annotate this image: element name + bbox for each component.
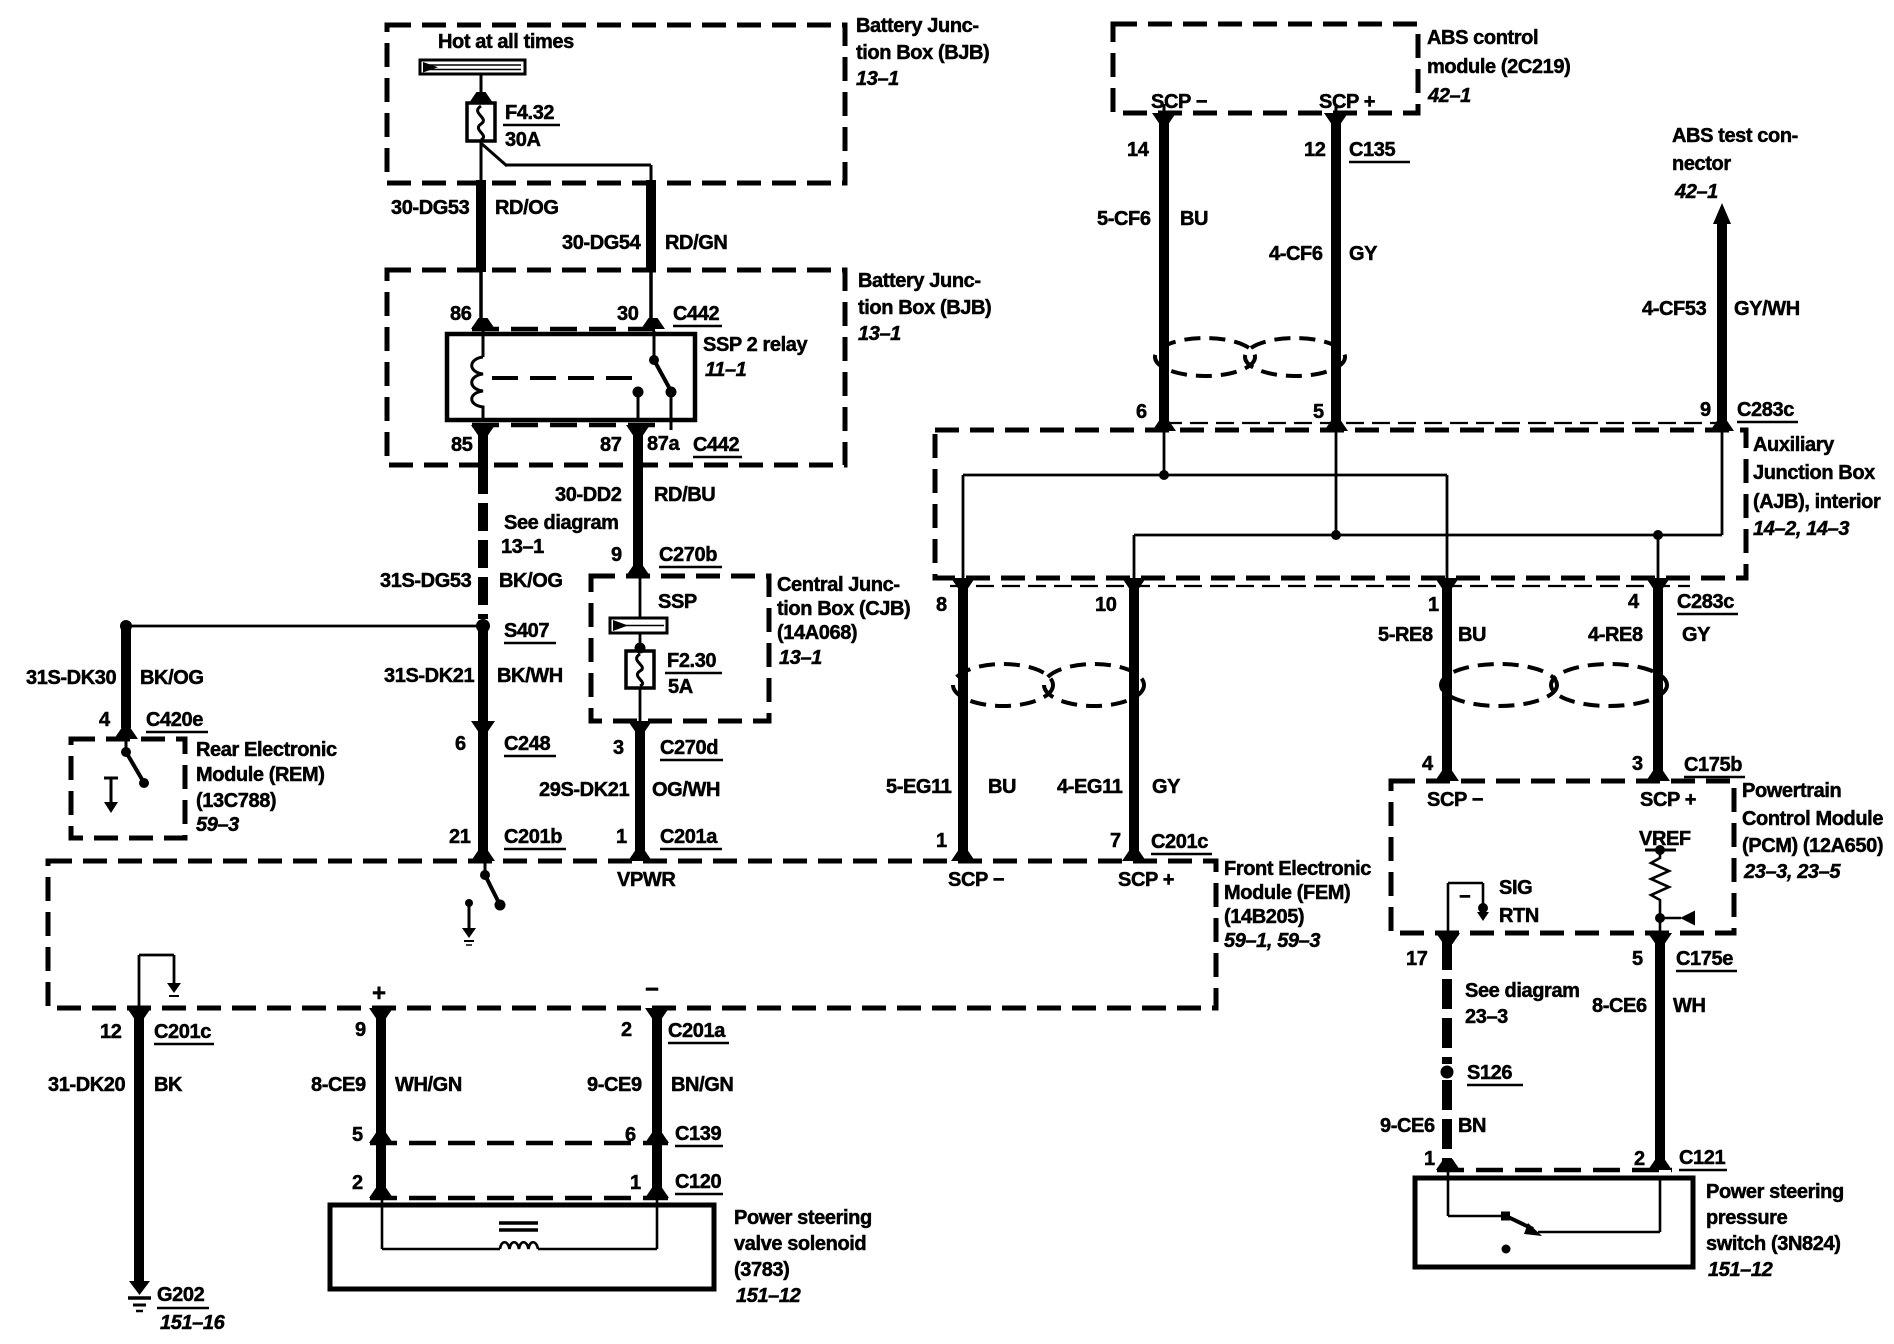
svg-text:C201a: C201a	[668, 1020, 726, 1042]
rear electronic module REM box	[71, 739, 185, 838]
wire bus bar to fuse	[480, 74, 483, 103]
svg-text:1: 1	[936, 830, 947, 852]
svg-text:SCP +: SCP +	[1118, 869, 1174, 891]
powertrain control module PCM box	[1391, 781, 1734, 933]
svg-text:WH: WH	[1673, 995, 1706, 1017]
svg-text:31-DK20: 31-DK20	[48, 1074, 126, 1096]
svg-text:VPWR: VPWR	[617, 869, 676, 891]
power steering valve solenoid box	[330, 1205, 714, 1289]
svg-text:42–1: 42–1	[1427, 85, 1471, 107]
svg-text:9: 9	[1700, 399, 1711, 421]
svg-text:switch (3N824): switch (3N824)	[1706, 1233, 1840, 1255]
battery junction box BJB (second)	[387, 270, 845, 465]
wire 30-DG54 RD/GN	[646, 180, 656, 272]
svg-text:Power steering: Power steering	[1706, 1181, 1844, 1203]
ground G202	[129, 1281, 150, 1295]
svg-text:Front Electronic: Front Electronic	[1224, 858, 1371, 880]
svg-text:8: 8	[936, 594, 947, 616]
svg-text:30-DD2: 30-DD2	[555, 484, 622, 506]
svg-text:29S-DK21: 29S-DK21	[539, 779, 629, 801]
svg-text:85: 85	[451, 434, 473, 456]
svg-text:Battery Junc-: Battery Junc-	[858, 270, 981, 292]
svg-text:C201b: C201b	[504, 826, 562, 848]
svg-text:SCP −: SCP −	[948, 869, 1004, 891]
SSP 2 relay	[447, 334, 695, 420]
wire 9-CE6 BN thick dashed with S126	[1442, 940, 1452, 1064]
solenoid internals	[381, 1198, 384, 1249]
svg-text:151–16: 151–16	[160, 1312, 226, 1334]
relay pin 87a stub	[670, 392, 673, 430]
svg-text:151–12: 151–12	[736, 1285, 801, 1307]
svg-text:5: 5	[1313, 401, 1324, 423]
wire pin 30	[649, 270, 653, 329]
svg-text:31S-DK30: 31S-DK30	[26, 667, 116, 689]
svg-text:(14B205): (14B205)	[1224, 906, 1304, 928]
svg-text:Central Junc-: Central Junc-	[777, 574, 900, 596]
battery junction box BJB (top)	[387, 25, 845, 183]
wire 31S-DG53 BK/OG thick dashed	[478, 466, 488, 619]
svg-text:C283c: C283c	[1737, 399, 1794, 421]
svg-text:ABS control: ABS control	[1427, 27, 1538, 49]
svg-text:BU: BU	[1458, 624, 1486, 646]
svg-text:5: 5	[352, 1124, 363, 1146]
svg-text:S407: S407	[504, 620, 549, 642]
svg-text:tion Box (BJB): tion Box (BJB)	[858, 297, 991, 319]
svg-text:2: 2	[352, 1172, 363, 1194]
svg-text:30A: 30A	[505, 129, 541, 151]
svg-text:6: 6	[1136, 401, 1147, 423]
svg-text:See diagram: See diagram	[504, 512, 619, 534]
wire 5-RE8 BU	[1442, 587, 1452, 775]
svg-text:tion Box (BJB): tion Box (BJB)	[856, 42, 989, 64]
svg-text:5A: 5A	[668, 676, 693, 698]
power steering pressure switch box	[1415, 1178, 1693, 1267]
connector C201c pin 12	[127, 1008, 151, 1019]
svg-text:Module (FEM): Module (FEM)	[1224, 882, 1350, 904]
svg-text:59–3: 59–3	[196, 814, 239, 836]
svg-text:C442: C442	[673, 303, 719, 325]
svg-text:C420e: C420e	[146, 709, 203, 731]
svg-text:C121: C121	[1679, 1147, 1725, 1169]
svg-text:pressure: pressure	[1706, 1207, 1788, 1229]
svg-text:87a: 87a	[647, 433, 680, 455]
svg-text:C442: C442	[693, 434, 739, 456]
wire 31-DK20 BK	[134, 1015, 144, 1281]
svg-text:GY/WH: GY/WH	[1734, 298, 1800, 320]
svg-text:4-CF53: 4-CF53	[1642, 298, 1707, 320]
svg-text:23–3, 23–5: 23–3, 23–5	[1743, 861, 1841, 883]
svg-text:5-RE8: 5-RE8	[1378, 624, 1433, 646]
splice S407	[476, 619, 490, 633]
wire S407 to REM branch	[126, 625, 480, 628]
wire 29S-DK21 OG/WH	[635, 727, 645, 852]
svg-text:14–2, 14–3: 14–2, 14–3	[1753, 518, 1849, 540]
svg-text:21: 21	[449, 826, 471, 848]
relay armature dashed link	[492, 376, 644, 380]
svg-text:C270d: C270d	[660, 737, 718, 759]
wire 31S-DK21 BK/WH	[478, 630, 488, 722]
wire 4-RE8 GY	[1653, 587, 1663, 775]
svg-text:(13C788): (13C788)	[196, 790, 276, 812]
svg-text:nector: nector	[1672, 153, 1731, 175]
solenoid core	[499, 1221, 538, 1225]
wire 4-CF53 GY/WH with up arrow	[1713, 203, 1731, 224]
svg-text:Powertrain: Powertrain	[1742, 780, 1841, 802]
wire 30-DG53 RD/OG	[476, 180, 486, 272]
wire 9-CE9 BN/GN	[652, 1015, 662, 1139]
svg-text:Rear Electronic: Rear Electronic	[196, 739, 337, 761]
svg-text:86: 86	[450, 303, 472, 325]
svg-text:12: 12	[1304, 139, 1326, 161]
svg-text:13–1: 13–1	[858, 323, 901, 345]
svg-text:5: 5	[1632, 948, 1643, 970]
svg-text:14: 14	[1127, 139, 1150, 161]
svg-text:BK/OG: BK/OG	[140, 667, 204, 689]
svg-text:ABS test con-: ABS test con-	[1672, 125, 1798, 147]
svg-text:BK/WH: BK/WH	[497, 665, 563, 687]
svg-text:1: 1	[1428, 594, 1439, 616]
svg-text:(AJB), interior: (AJB), interior	[1753, 491, 1881, 513]
svg-text:SCP −: SCP −	[1427, 789, 1483, 811]
svg-text:8-CE6: 8-CE6	[1592, 995, 1647, 1017]
svg-text:RTN: RTN	[1499, 905, 1539, 927]
svg-text:1: 1	[1424, 1148, 1435, 1170]
wire 8-CE6 WH	[1655, 940, 1665, 1166]
svg-text:SSP: SSP	[658, 591, 697, 613]
svg-text:2: 2	[1634, 1148, 1645, 1170]
AJB SCP minus bus	[1163, 430, 1166, 475]
svg-text:BN/GN: BN/GN	[671, 1074, 733, 1096]
svg-text:4: 4	[99, 709, 111, 731]
AJB SCP plus bus	[1335, 430, 1338, 535]
svg-text:C175b: C175b	[1684, 754, 1742, 776]
in-line connector C248	[471, 721, 495, 732]
svg-text:SSP 2 relay: SSP 2 relay	[703, 334, 808, 356]
svg-text:5-CF6: 5-CF6	[1097, 208, 1151, 230]
svg-text:3: 3	[1632, 753, 1643, 775]
svg-text:valve solenoid: valve solenoid	[734, 1233, 866, 1255]
svg-text:C139: C139	[675, 1123, 721, 1145]
relay switch pivot and blade	[653, 331, 656, 359]
wire 5-CF6 BU	[1159, 120, 1169, 424]
connector pins 9 and 2 C201a	[369, 1008, 393, 1019]
svg-text:31S-DG53: 31S-DG53	[380, 570, 472, 592]
svg-text:C201c: C201c	[1151, 831, 1208, 853]
svg-text:4-RE8: 4-RE8	[1588, 624, 1643, 646]
svg-text:RD/BU: RD/BU	[654, 484, 715, 506]
svg-text:4-EG11: 4-EG11	[1057, 776, 1123, 798]
svg-text:2: 2	[621, 1019, 632, 1041]
svg-text:−: −	[645, 976, 659, 1003]
fuse F4.32 30A	[467, 103, 495, 141]
svg-text:RD/OG: RD/OG	[495, 197, 559, 219]
svg-text:(14A068): (14A068)	[777, 622, 857, 644]
svg-text:Junction Box: Junction Box	[1753, 462, 1875, 484]
svg-text:4: 4	[1628, 591, 1640, 613]
REM ground contact	[104, 777, 118, 780]
svg-text:Hot at all times: Hot at all times	[438, 31, 574, 53]
wire fuse diagonal branch	[482, 144, 507, 166]
svg-text:Module (REM): Module (REM)	[196, 764, 325, 786]
svg-text:30-DG54: 30-DG54	[562, 232, 642, 254]
svg-text:5-EG11: 5-EG11	[886, 776, 952, 798]
svg-text:GY: GY	[1682, 624, 1711, 646]
svg-text:−: −	[1459, 886, 1470, 908]
svg-text:Power steering: Power steering	[734, 1207, 872, 1229]
svg-text:30: 30	[617, 303, 639, 325]
svg-text:1: 1	[630, 1172, 641, 1194]
twisted pair EG11	[953, 664, 1053, 706]
connector C283c bottom row labels	[951, 578, 975, 589]
svg-text:4-CF6: 4-CF6	[1269, 243, 1323, 265]
svg-text:BU: BU	[1180, 208, 1208, 230]
svg-text:30-DG53: 30-DG53	[391, 197, 470, 219]
svg-text:C248: C248	[504, 733, 550, 755]
svg-text:RD/GN: RD/GN	[665, 232, 727, 254]
twisted pair RE8	[1441, 664, 1557, 706]
svg-text:23–3: 23–3	[1465, 1006, 1508, 1028]
relay coil	[482, 331, 485, 357]
svg-text:See diagram: See diagram	[1465, 980, 1580, 1002]
svg-text:C201a: C201a	[660, 826, 718, 848]
svg-text:BU: BU	[988, 776, 1016, 798]
connector row C442 bottom	[472, 423, 663, 428]
front electronic module FEM box	[48, 861, 1216, 1008]
svg-text:OG/WH: OG/WH	[652, 779, 720, 801]
svg-text:13–1: 13–1	[779, 647, 822, 669]
ABS control module box	[1113, 24, 1418, 113]
svg-text:module (2C219): module (2C219)	[1427, 56, 1570, 78]
svg-text:13–1: 13–1	[501, 536, 544, 558]
svg-text:C201c: C201c	[154, 1021, 211, 1043]
svg-text:+: +	[372, 980, 386, 1007]
FEM internal ground loop at pin 12	[138, 955, 141, 1008]
svg-text:42–1: 42–1	[1674, 181, 1718, 203]
svg-text:VREF: VREF	[1639, 828, 1691, 850]
svg-text:(3783): (3783)	[734, 1259, 789, 1281]
svg-text:151–12: 151–12	[1708, 1259, 1773, 1281]
svg-text:GY: GY	[1152, 776, 1181, 798]
svg-text:9: 9	[355, 1019, 366, 1041]
svg-text:8-CE9: 8-CE9	[311, 1074, 366, 1096]
svg-text:9-CE9: 9-CE9	[587, 1074, 642, 1096]
central junction box CJB	[591, 576, 769, 721]
connector C270d	[628, 721, 652, 732]
svg-text:6: 6	[455, 733, 466, 755]
svg-text:SCP −: SCP −	[1151, 91, 1207, 113]
svg-text:tion Box (CJB): tion Box (CJB)	[777, 598, 910, 620]
svg-text:17: 17	[1406, 948, 1428, 970]
svg-text:(PCM) (12A650): (PCM) (12A650)	[1742, 835, 1883, 857]
svg-text:BK/OG: BK/OG	[499, 570, 563, 592]
svg-text:C175e: C175e	[1676, 948, 1733, 970]
svg-text:87: 87	[600, 434, 622, 456]
svg-text:F4.32: F4.32	[505, 102, 554, 124]
svg-text:59–1, 59–3: 59–1, 59–3	[1224, 930, 1320, 952]
wire pin 86	[479, 270, 483, 329]
FEM switch below pin 21	[484, 861, 487, 873]
wire pin 87 down 30-DD2 RD/BU	[633, 432, 643, 566]
wire 31S-DK30 BK/OG	[121, 628, 131, 728]
wire pin 85 down	[478, 432, 488, 468]
auxiliary junction box AJB	[935, 430, 1746, 578]
svg-text:G202: G202	[157, 1284, 205, 1306]
svg-text:9-CE6: 9-CE6	[1380, 1115, 1435, 1137]
svg-text:13–1: 13–1	[856, 68, 899, 90]
wire 4-EG11 GY	[1129, 587, 1139, 852]
svg-text:S126: S126	[1467, 1062, 1512, 1084]
PCM SIG RTN	[1447, 883, 1450, 933]
wire 8-CE9 WH/GN	[376, 1015, 386, 1139]
svg-text:WH/GN: WH/GN	[395, 1074, 462, 1096]
wire 4-CF6 GY	[1331, 120, 1341, 424]
wire 5-EG11 BU	[958, 587, 968, 852]
svg-text:11–1: 11–1	[705, 359, 747, 381]
svg-text:12: 12	[100, 1021, 122, 1043]
svg-text:10: 10	[1095, 594, 1117, 616]
wire fuse down	[480, 141, 483, 184]
svg-text:C283c: C283c	[1677, 591, 1734, 613]
svg-text:C135: C135	[1349, 139, 1395, 161]
svg-text:3: 3	[613, 737, 624, 759]
relay contact 87	[633, 387, 644, 398]
svg-text:GY: GY	[1349, 243, 1378, 265]
svg-text:C270b: C270b	[659, 544, 717, 566]
FEM ground contact	[465, 899, 473, 907]
svg-text:7: 7	[1110, 830, 1121, 852]
connector C175e	[1436, 933, 1460, 944]
fuse F2.30 5A	[639, 633, 642, 647]
svg-text:C120: C120	[675, 1171, 721, 1193]
svg-text:9: 9	[611, 544, 622, 566]
svg-text:Control Module: Control Module	[1742, 808, 1883, 830]
svg-text:F2.30: F2.30	[667, 650, 716, 672]
svg-text:Battery Junc-: Battery Junc-	[856, 15, 979, 37]
svg-text:1: 1	[616, 826, 627, 848]
switch internals	[1447, 1170, 1450, 1216]
svg-text:4: 4	[1422, 753, 1434, 775]
connector C135	[1163, 104, 1166, 113]
svg-text:BN: BN	[1458, 1115, 1486, 1137]
twisted pair CF6	[1155, 338, 1255, 376]
svg-text:Auxiliary: Auxiliary	[1753, 434, 1835, 456]
svg-text:BK: BK	[154, 1074, 183, 1096]
svg-text:SIG: SIG	[1499, 877, 1532, 899]
svg-text:SCP +: SCP +	[1640, 789, 1696, 811]
svg-text:SCP +: SCP +	[1319, 91, 1375, 113]
svg-text:31S-DK21: 31S-DK21	[384, 665, 474, 687]
REM switch	[125, 739, 128, 750]
